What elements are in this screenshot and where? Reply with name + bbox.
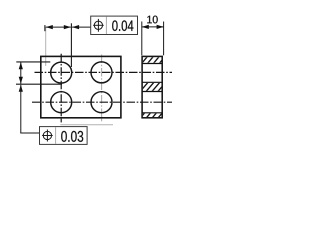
centerline H1 (upper holes) — [35, 71, 173, 73]
dimension 10: dimension line — [142, 26, 164, 28]
left dimension: bottom extension line — [16, 83, 62, 85]
top dimension: dimension line — [46, 26, 71, 28]
leader to bottom FCF: horizontal line — [20, 132, 39, 134]
top FCF position symbol — [93, 19, 104, 32]
top dimension: left arrowhead — [46, 25, 53, 29]
section hole wall line 3 — [142, 91, 162, 93]
leader to top FCF: line — [72, 26, 91, 28]
centerline V tick below plate — [60, 119, 62, 123]
leader to bottom FCF: vertical line — [20, 85, 22, 133]
dimension 10: left arrowhead — [142, 25, 149, 29]
bottom FCF frame — [40, 127, 88, 145]
gray construction line (left extension, top dimension) — [45, 27, 47, 66]
centerline H2 (lower holes) — [32, 101, 172, 103]
hatch middle band — [138, 80, 174, 94]
dimension 10: right extension line — [163, 22, 165, 56]
hole C3 (bottom-left) — [51, 92, 72, 113]
section hole wall line 4 — [142, 112, 162, 114]
section hole wall line 1 — [142, 63, 162, 65]
left dimension: top extension line — [16, 61, 50, 63]
plate outline (front view) — [41, 56, 121, 117]
top dimension: right arrowhead — [64, 25, 71, 29]
gray construction line below plate — [60, 124, 113, 126]
left dimension: bottom arrowhead — [19, 77, 23, 84]
top FCF divider — [105, 17, 107, 34]
section hole wall line 2 — [142, 81, 162, 83]
centerline V (left hole column) — [60, 54, 62, 117]
hole C1 (top-left) — [51, 62, 72, 83]
left dimension: dimension line — [20, 62, 22, 84]
gray centerline right hole column — [101, 55, 103, 118]
bottom FCF position symbol — [42, 130, 53, 142]
dimension 10: right arrowhead — [157, 25, 164, 29]
section view outline — [142, 56, 162, 117]
leader to bottom FCF: arrowhead — [19, 85, 23, 92]
hole C4 (bottom-right) — [91, 92, 112, 113]
top dimension: right extension line — [70, 23, 72, 67]
hatch bottom band — [140, 107, 174, 119]
top FCF frame — [91, 16, 138, 34]
hole C2 (top-right) — [91, 62, 112, 83]
bottom FCF tolerance text 0.03 — [61, 131, 83, 142]
dimension 10: left extension line — [141, 22, 143, 56]
leader to top FCF: arrowhead — [72, 25, 79, 29]
top dimension: left extension tick — [44, 25, 46, 31]
hatch top band — [140, 54, 174, 66]
bottom FCF divider — [55, 127, 57, 144]
dimension 10: value text — [147, 16, 157, 24]
top FCF tolerance text 0.04 — [112, 20, 133, 31]
left dimension: top arrowhead — [19, 62, 23, 69]
